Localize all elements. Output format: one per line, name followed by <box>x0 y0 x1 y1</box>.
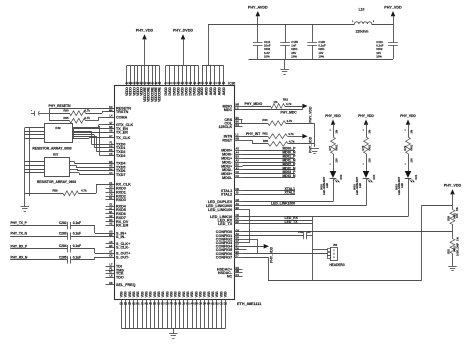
svg-text:PHY_RX_N: PHY_RX_N <box>11 256 29 260</box>
svg-text:R59: R59 <box>446 215 450 220</box>
svg-text:R77: R77 <box>328 145 332 150</box>
svg-text:LED_TX: LED_TX <box>218 222 233 226</box>
svg-text:B8: B8 <box>236 236 240 240</box>
svg-text:10V: 10V <box>307 232 311 234</box>
svg-text:0402: 0402 <box>368 144 372 150</box>
svg-text:R61: R61 <box>283 97 289 101</box>
svg-text:TX_CLK: TX_CLK <box>116 136 131 140</box>
svg-text:PHY_VDD: PHY_VDD <box>308 106 312 123</box>
svg-text:0402: 0402 <box>410 144 414 150</box>
svg-text:LED: LED <box>325 183 329 188</box>
svg-text:E1: E1 <box>109 203 113 207</box>
svg-text:E8: E8 <box>236 250 240 254</box>
svg-text:K7: K7 <box>109 270 113 274</box>
svg-text:10%: 10% <box>264 55 270 59</box>
svg-text:D1: D1 <box>109 196 113 200</box>
svg-text:0201: 0201 <box>318 47 325 51</box>
svg-text:D8: D8 <box>236 246 240 250</box>
svg-text:IC30: IC30 <box>228 82 235 86</box>
svg-text:L10: L10 <box>359 8 365 12</box>
svg-text:M1: M1 <box>236 266 240 270</box>
svg-text:A8: A8 <box>109 129 113 133</box>
svg-text:C6: C6 <box>109 253 113 257</box>
svg-text:100: 100 <box>335 158 339 163</box>
svg-text:A4: A4 <box>205 81 209 85</box>
svg-text:S_IN-: S_IN- <box>116 235 126 239</box>
svg-text:D20: D20 <box>372 174 376 179</box>
svg-text:R40: R40 <box>262 118 268 122</box>
svg-text:D4: D4 <box>218 81 222 85</box>
svg-text:MDI3-: MDI3- <box>222 176 233 180</box>
svg-text:A1: A1 <box>109 206 113 210</box>
svg-text:B4: B4 <box>209 81 213 85</box>
svg-text:R90: R90 <box>63 109 69 113</box>
svg-text:B3: B3 <box>236 155 240 159</box>
svg-text:100: 100 <box>410 158 414 163</box>
svg-text:4.7k: 4.7k <box>289 140 295 144</box>
svg-text:S_CLK-: S_CLK- <box>116 246 130 250</box>
svg-text:PHY_VDD: PHY_VDD <box>136 29 154 33</box>
svg-text:R79: R79 <box>403 145 407 150</box>
svg-text:RESISTOR_ARRAY_0603: RESISTOR_ARRAY_0603 <box>32 147 71 151</box>
svg-text:0402: 0402 <box>335 144 339 150</box>
svg-text:K3: K3 <box>200 81 204 85</box>
svg-text:B9: B9 <box>236 206 240 210</box>
svg-text:A3: A3 <box>236 158 240 162</box>
svg-text:D4: D4 <box>236 123 240 127</box>
svg-text:100R_DNP: 100R_DNP <box>455 243 459 256</box>
svg-text:ETH_88E1111: ETH_88E1111 <box>237 302 261 306</box>
svg-text:D9: D9 <box>236 217 240 221</box>
svg-text:PHY_VDD: PHY_VDD <box>384 5 402 9</box>
svg-text:D30: D30 <box>339 174 343 179</box>
svg-text:E7: E7 <box>236 254 240 258</box>
svg-text:J50: J50 <box>333 244 338 247</box>
svg-text:D2: D2 <box>224 302 228 306</box>
svg-text:LED: LED <box>400 183 404 188</box>
svg-text:LED_LINK100: LED_LINK100 <box>208 208 232 212</box>
svg-text:PHY_MDIO: PHY_MDIO <box>245 102 263 106</box>
svg-text:G8: G8 <box>236 198 240 202</box>
svg-text:4.7k: 4.7k <box>84 116 90 120</box>
svg-text:M5: M5 <box>236 102 240 106</box>
svg-text:1%: 1% <box>273 100 278 104</box>
svg-text:B1: B1 <box>109 210 113 214</box>
svg-text:LED_LINK1000: LED_LINK1000 <box>271 202 295 206</box>
svg-text:A4: A4 <box>236 151 240 155</box>
svg-text:RX_ER: RX_ER <box>116 224 129 228</box>
svg-text:M2: M2 <box>236 137 240 141</box>
svg-text:AVDD: AVDD <box>222 87 226 96</box>
svg-text:R60: R60 <box>263 139 269 143</box>
svg-text:M8: M8 <box>236 269 240 273</box>
svg-text:AVDD: AVDD <box>209 87 213 96</box>
svg-text:PHY_VDD: PHY_VDD <box>400 114 416 118</box>
svg-text:MDC: MDC <box>224 108 233 112</box>
svg-text:CONFIG7: CONFIG7 <box>216 255 232 259</box>
svg-text:PHY_MDC: PHY_MDC <box>281 111 298 115</box>
svg-text:E2: E2 <box>124 302 128 306</box>
svg-text:10%: 10% <box>291 55 297 59</box>
svg-text:PHY_VDD: PHY_VDD <box>358 114 374 118</box>
svg-text:A8: A8 <box>236 232 240 236</box>
svg-text:D4: D4 <box>236 273 240 277</box>
svg-text:4.7k: 4.7k <box>288 132 294 136</box>
svg-text:XTAL2: XTAL2 <box>285 191 296 195</box>
svg-text:A6: A6 <box>109 240 113 244</box>
svg-text:C8: C8 <box>109 192 113 196</box>
svg-text:A2: A2 <box>109 222 113 226</box>
svg-text:0.1uF: 0.1uF <box>73 255 81 259</box>
svg-text:PHY_TX_N: PHY_TX_N <box>11 232 28 236</box>
svg-text:B2: B2 <box>236 162 240 166</box>
svg-text:PHY_VDD: PHY_VDD <box>270 246 274 263</box>
svg-text:NC: NC <box>227 275 233 279</box>
svg-text:PHY_INT: PHY_INT <box>246 132 261 136</box>
svg-text:4.7k: 4.7k <box>287 119 293 123</box>
svg-text:XTAL2: XTAL2 <box>221 193 232 197</box>
svg-text:H3: H3 <box>178 302 182 306</box>
svg-text:TXD3: TXD3 <box>116 154 125 158</box>
svg-text:LED: LED <box>358 183 362 188</box>
svg-text:4.7k: 4.7k <box>286 102 292 106</box>
svg-text:0201: 0201 <box>291 47 298 51</box>
svg-text:R57: R57 <box>53 152 59 156</box>
svg-text:4.7k: 4.7k <box>84 109 90 113</box>
svg-text:VDDCORE: VDDCORE <box>158 86 162 102</box>
svg-text:PHY_AVDD: PHY_AVDD <box>248 5 268 9</box>
svg-text:A3: A3 <box>109 230 113 234</box>
svg-text:A5: A5 <box>236 147 240 151</box>
svg-text:PHY_VDD: PHY_VDD <box>325 114 341 118</box>
svg-text:C162: C162 <box>298 232 304 234</box>
svg-text:100: 100 <box>368 158 372 163</box>
svg-text:E3: E3 <box>166 302 170 306</box>
svg-text:D21: D21 <box>414 174 418 179</box>
svg-text:A2: A2 <box>236 166 240 170</box>
svg-text:0402: 0402 <box>264 47 271 51</box>
svg-text:TDO: TDO <box>116 275 124 279</box>
svg-text:R52: R52 <box>446 248 450 253</box>
svg-text:R89: R89 <box>52 188 58 192</box>
svg-text:RESISTOR_ARRAY_0603: RESISTOR_ARRAY_0603 <box>37 180 76 184</box>
svg-text:D2: D2 <box>109 188 113 192</box>
svg-text:S_OUT-: S_OUT- <box>116 255 130 259</box>
svg-text:PHY_RX_P: PHY_RX_P <box>11 244 29 248</box>
svg-text:H8: H8 <box>109 281 113 285</box>
svg-text:TX_ER: TX_ER <box>116 130 128 134</box>
svg-text:RSET: RSET <box>222 138 233 142</box>
svg-text:C282: C282 <box>59 221 67 225</box>
svg-text:10%: 10% <box>376 55 382 59</box>
svg-text:R49: R49 <box>55 126 61 130</box>
svg-text:100: 100 <box>455 213 459 218</box>
svg-text:COMA: COMA <box>116 115 128 119</box>
svg-text:PHY_VDD: PHY_VDD <box>308 136 312 153</box>
svg-text:R78: R78 <box>361 145 365 150</box>
svg-text:E2: E2 <box>109 214 113 218</box>
svg-text:C3: C3 <box>236 170 240 174</box>
svg-text:SEL_FREQ: SEL_FREQ <box>116 283 136 287</box>
svg-text:C2: C2 <box>236 174 240 178</box>
svg-text:0402: 0402 <box>376 47 383 51</box>
svg-text:4.7k: 4.7k <box>81 188 87 192</box>
svg-text:C4: C4 <box>213 81 217 85</box>
svg-text:R62: R62 <box>262 131 268 135</box>
svg-text:B5: B5 <box>236 116 240 120</box>
svg-text:B6: B6 <box>109 244 113 248</box>
svg-text:PHY_RESETN: PHY_RESETN <box>49 104 72 108</box>
svg-text:HEADER3: HEADER3 <box>329 263 344 267</box>
svg-text:H2: H2 <box>136 302 140 306</box>
svg-text:E3: E3 <box>109 185 113 189</box>
svg-text:220ohm: 220ohm <box>356 30 369 34</box>
svg-text:0.1uF: 0.1uF <box>73 232 81 236</box>
svg-text:B3: B3 <box>109 218 113 222</box>
svg-text:D7: D7 <box>236 243 240 247</box>
svg-text:K2: K2 <box>158 81 162 85</box>
svg-text:PHY_TX_P: PHY_TX_P <box>11 221 28 225</box>
svg-text:C9: C9 <box>236 213 240 217</box>
svg-text:LED_TX: LED_TX <box>285 220 299 224</box>
svg-text:C285: C285 <box>59 255 67 259</box>
svg-text:PHY_DVDD: PHY_DVDD <box>173 29 193 33</box>
svg-text:A5: A5 <box>109 164 113 168</box>
svg-text:C284: C284 <box>59 244 67 248</box>
svg-text:H9: H9 <box>236 187 240 191</box>
svg-text:RXD3: RXD3 <box>116 198 126 202</box>
svg-text:E9: E9 <box>236 220 240 224</box>
svg-text:H3: H3 <box>193 81 197 85</box>
svg-text:E4: E4 <box>222 81 226 85</box>
svg-text:C283: C283 <box>59 232 67 236</box>
svg-text:TRSTN: TRSTN <box>116 110 129 114</box>
svg-text:B6: B6 <box>236 120 240 124</box>
svg-text:0.1uF: 0.1uF <box>73 221 81 225</box>
svg-text:G9: G9 <box>236 228 240 232</box>
svg-text:R95: R95 <box>63 116 69 120</box>
svg-text:125CLK: 125CLK <box>218 125 232 129</box>
svg-text:TXD7: TXD7 <box>116 173 125 177</box>
svg-text:C7: C7 <box>236 239 240 243</box>
svg-text:MDI3_N: MDI3_N <box>282 174 296 178</box>
svg-text:0.1uF: 0.1uF <box>73 244 81 248</box>
svg-text:A9: A9 <box>236 202 240 206</box>
svg-text:10%: 10% <box>318 55 324 59</box>
svg-text:PHY_VDD: PHY_VDD <box>444 184 462 188</box>
